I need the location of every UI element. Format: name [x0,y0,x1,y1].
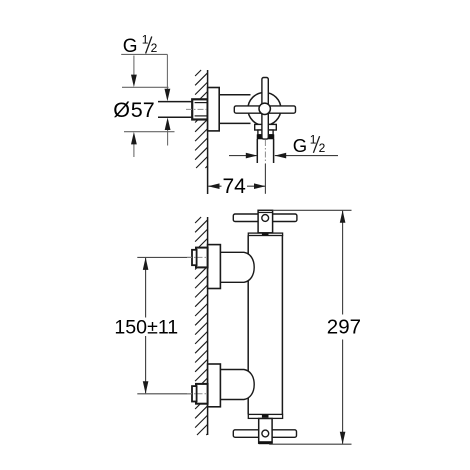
outlet middle ring [258,130,273,135]
297 bottom extension line [269,443,351,445]
escutcheon (upper figure) [208,88,220,131]
bottom cross handle bar [233,430,296,438]
dimension 150+-11 line and arrows [145,258,147,318]
svg-text:G: G [123,36,138,57]
wall face line (lower) [207,217,209,435]
svg-text:2: 2 [319,141,326,155]
wall hatching (upper) [195,70,208,168]
upper escutcheon [208,245,221,289]
outlet flange [255,124,277,130]
outlet pipe [256,139,258,163]
outlet G1/2 leader with arrow (left) [275,155,338,157]
svg-text:297: 297 [327,316,361,339]
svg-text:150±11: 150±11 [114,317,178,339]
top bonnet ring [248,233,282,235]
leader to pipe top (arrow down) [166,54,168,92]
dimension 74 [208,185,221,187]
dia 57 top arrow (down) [133,56,135,78]
handle cross horizontal arm [234,106,295,113]
top handle hub [258,210,273,233]
lower S-union [220,370,254,400]
union nut at wall [192,99,207,119]
upper S-union [220,252,254,282]
svg-text:Ø: Ø [113,98,130,122]
svg-text:G: G [293,135,307,156]
outlet left arrow (right-pointing) [229,155,257,157]
wall hatching (lower) [195,217,208,435]
lower connection centerline [137,393,191,395]
dia 57 dimension extension lines [122,86,169,88]
handle disc (outer circle) [248,93,281,126]
pipe centerline [186,108,209,110]
svg-text:1: 1 [142,33,149,47]
handle hub circle [259,103,270,114]
G1/2 label underline [121,53,167,55]
wall face line (upper), doubles as 74 extension line [207,70,209,194]
bottom bonnet ring [248,414,282,418]
pipe bottom arrow (up) [167,128,169,146]
mixer body [247,235,249,414]
svg-text:57: 57 [131,98,155,122]
297 top extension line [273,209,352,211]
bottom hub cap (dark) [259,441,272,444]
dia 57 bottom arrow (up) [133,143,135,158]
outlet knurled nut (dark) [257,135,274,139]
svg-text:74: 74 [223,175,247,198]
upper wall nut [196,248,208,268]
upper connection centerline [137,256,191,258]
handle cross vertical arm [262,78,268,140]
outlet centerline / 74 extension [264,140,266,164]
bottom handle hub [259,419,272,444]
supply pipe [158,101,193,103]
top hub screw circle [262,215,269,222]
top stem detail (dark) [262,233,269,235]
top cross handle bar [233,214,297,222]
bottom hub screw circle [262,430,269,437]
valve body behind handle [219,94,250,96]
dimension 297 line and arrows [342,211,344,315]
lower wall nut [196,384,208,404]
bottom stem detail (dark) [262,415,269,418]
lower escutcheon [208,364,221,407]
svg-text:2: 2 [151,41,158,55]
svg-text:1: 1 [310,133,317,147]
